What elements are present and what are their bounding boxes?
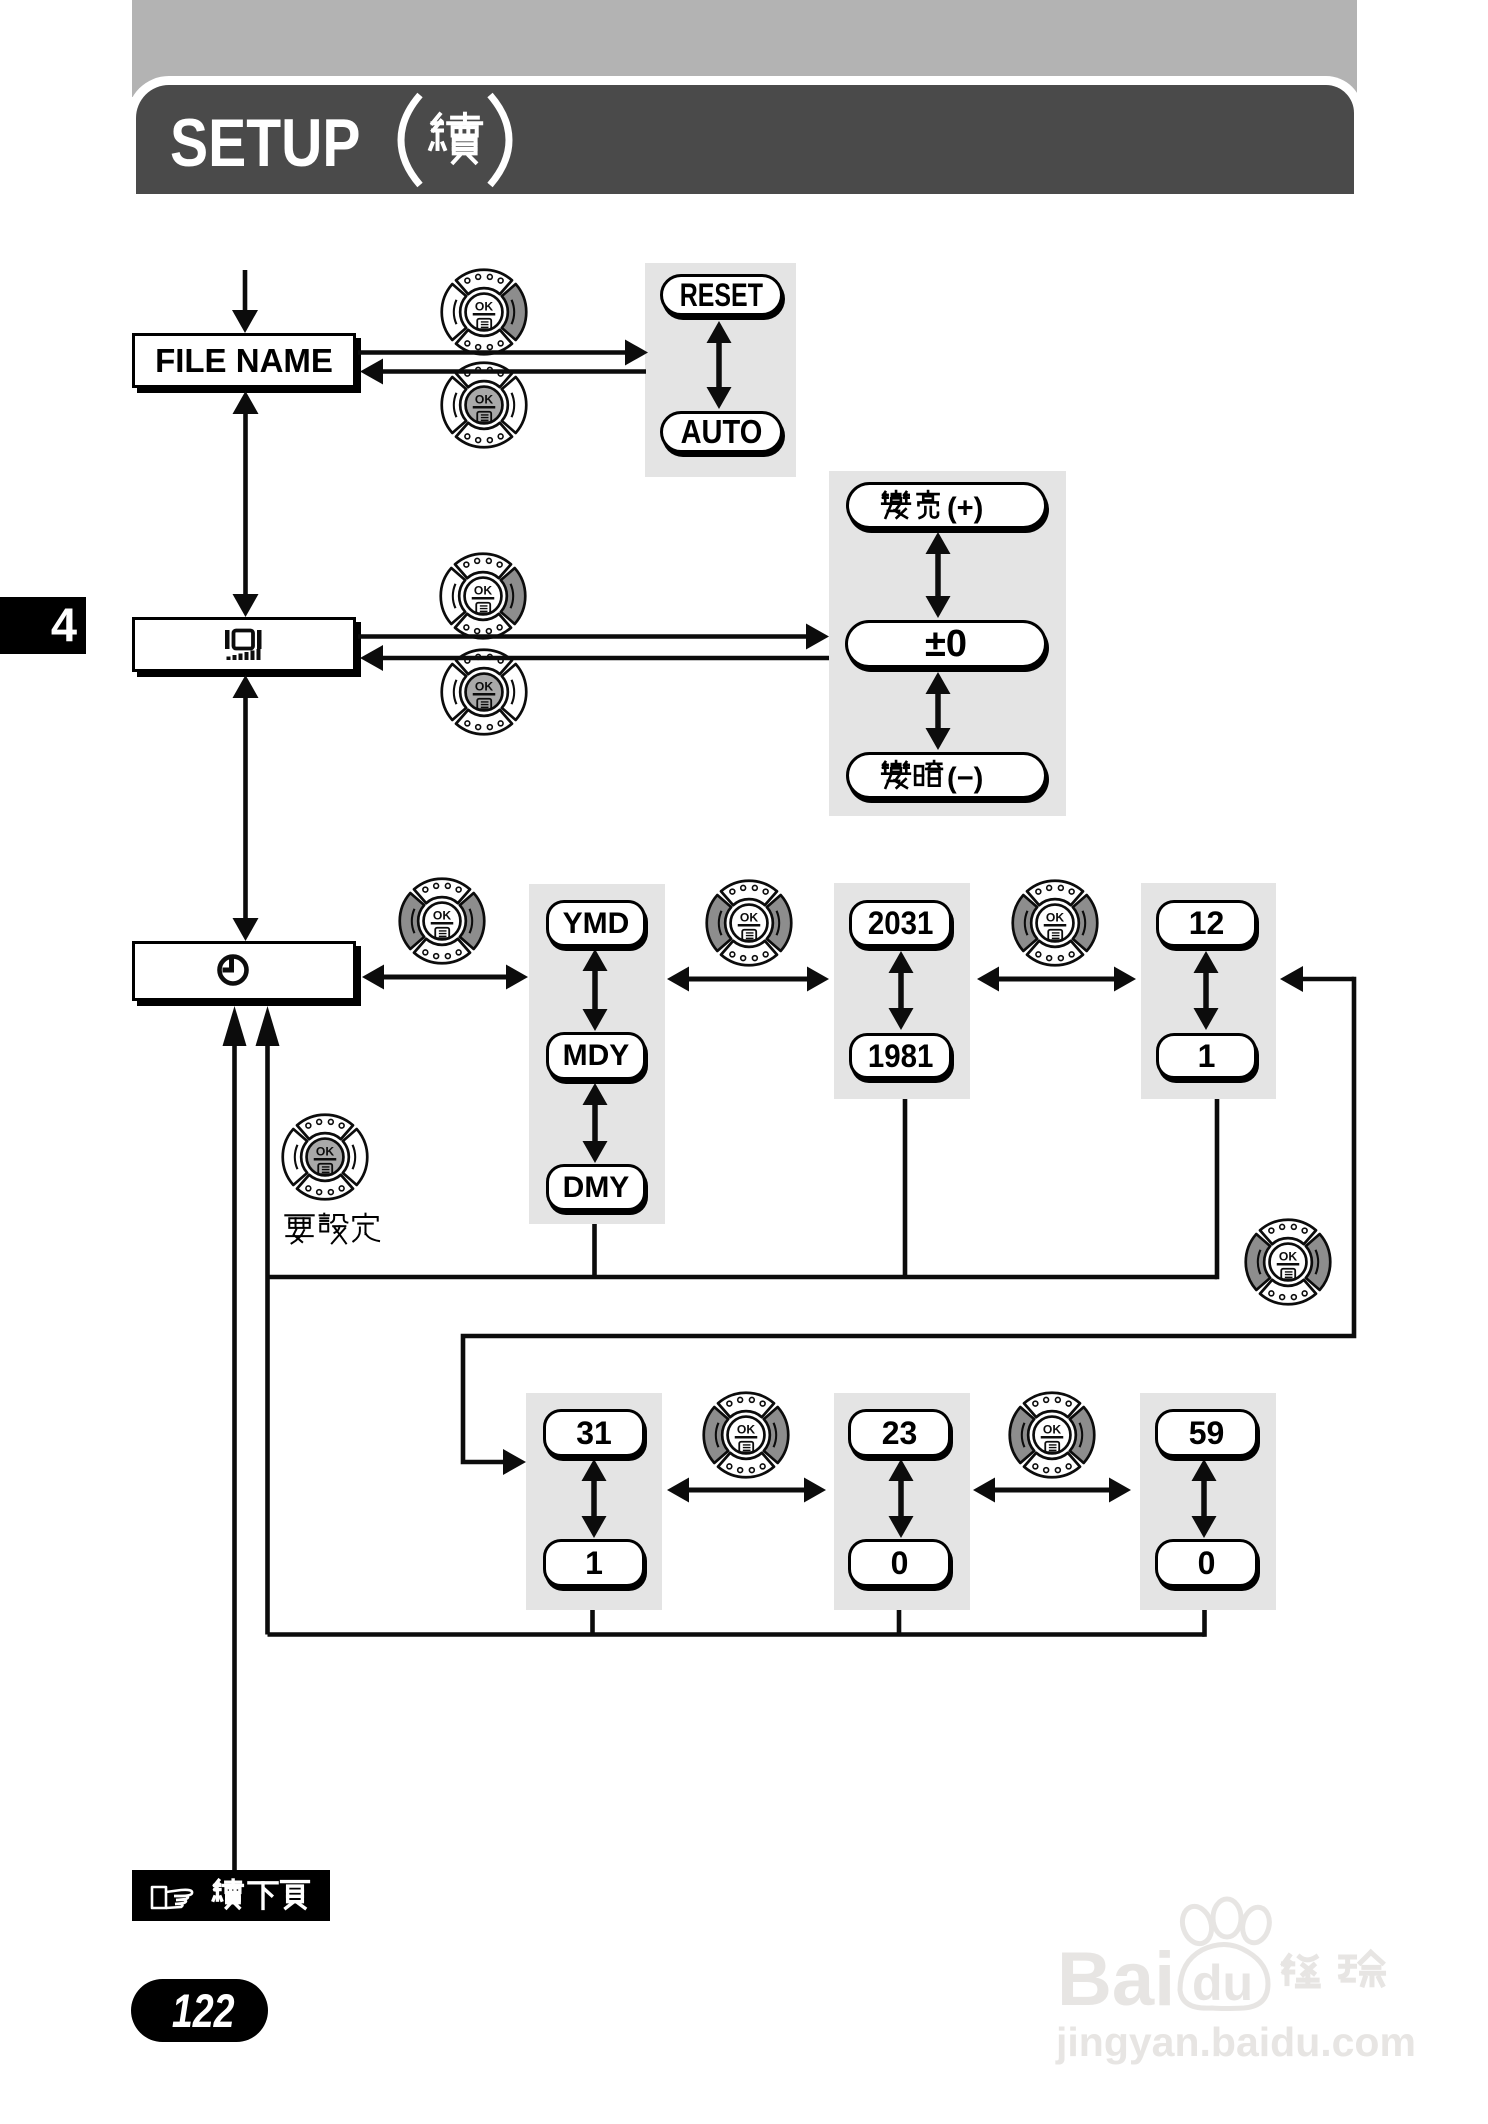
ok-pad P3 (441, 554, 526, 639)
return line from next page into clock box (232, 1046, 237, 1870)
pill day 1 (543, 1539, 645, 1587)
ok-pad P9 (1246, 1220, 1331, 1305)
pill year 1981 (849, 1033, 952, 1079)
double arrow 59/0 (1201, 1479, 1207, 1518)
node box monitor (132, 617, 356, 672)
panel year (834, 883, 970, 1099)
svg-text:Bai: Bai (1057, 1937, 1175, 2022)
svg-text:(+): (+) (947, 493, 983, 525)
link FILE NAME / monitor (233, 391, 259, 414)
pill hour 23 (848, 1409, 951, 1457)
pill month 12 (1156, 900, 1257, 947)
pill YMD (546, 900, 646, 947)
clock icon in clock box (220, 957, 247, 984)
feedback wire right/down/left (463, 977, 1354, 1462)
ok-pad P11 (1010, 1393, 1095, 1478)
pill month 1 (1156, 1033, 1257, 1079)
ok-pad P1 (442, 270, 527, 355)
node box clock (132, 941, 356, 1001)
double arrow brighter/zero (935, 552, 941, 598)
monitor icon in monitor box (225, 630, 262, 660)
ok-pad P6 (707, 881, 792, 966)
watermark baidu logo paw (139, 1899, 1273, 2124)
double arrow day / hour panel (687, 1488, 806, 1493)
wire hour panel down (897, 1610, 902, 1635)
double arrow 31/1 (591, 1479, 597, 1518)
title fullwidth paren right (490, 95, 509, 185)
double arrow 2031/1981 (898, 971, 904, 1010)
wire 1981 panel down (903, 1099, 908, 1277)
arrow brightness panel to monitor (381, 656, 829, 661)
feedback arrow into month panel (1280, 966, 1303, 992)
feedback arrow into day panel (503, 1449, 526, 1475)
wire month panel down (1215, 1099, 1220, 1279)
ok-pad P5 (400, 879, 485, 964)
double arrow zero/darker (935, 692, 941, 730)
arrow monitor to brightness panel (358, 634, 808, 639)
header gray band (132, 0, 1357, 97)
double arrow MDY/DMY (592, 1103, 598, 1143)
return line from collectors into clock box (265, 1046, 270, 1635)
svg-text:(−): (−) (947, 763, 983, 795)
pill RESET (660, 274, 783, 316)
arrow RESET panel to FILE NAME (381, 369, 646, 374)
entry arrow into FILE NAME (243, 270, 248, 312)
double arrow 12/1 (1203, 971, 1209, 1010)
double arrow hour / minute panel (993, 1488, 1111, 1493)
page number 122 (131, 1979, 268, 2042)
continue next page box (132, 1870, 330, 1921)
panel minute (1140, 1393, 1276, 1610)
pointing hand icon (152, 1887, 192, 1908)
label to set (要設定) (285, 1215, 313, 1243)
panel day (526, 1393, 662, 1610)
title fullwidth paren left (401, 95, 420, 185)
panel RESET/AUTO (645, 263, 796, 477)
double arrow RESET/AUTO (716, 341, 722, 389)
double arrow YMD/MDY (592, 969, 598, 1011)
link monitor / clock (233, 675, 259, 698)
pill day 31 (543, 1409, 645, 1457)
node box FILE NAME (132, 333, 356, 388)
chapter tab 4 (0, 597, 86, 654)
panel YMD (529, 884, 665, 1224)
ok-pad P10 (704, 1393, 789, 1478)
title text SETUP (170, 104, 360, 182)
pill minute 0 (1155, 1539, 1258, 1587)
watermark 经验 (1283, 1956, 1318, 1986)
pill AUTO (660, 411, 783, 453)
pill brighter (846, 482, 1047, 529)
wire minute panel down (1202, 1610, 1207, 1637)
double arrow clock / YMD panel (382, 975, 508, 980)
ok-pad P4 (442, 650, 527, 735)
arrow FILE NAME to RESET panel (358, 350, 627, 355)
double arrow year / month panel (997, 977, 1116, 982)
continue text 續下頁 (213, 1880, 242, 1908)
ok-pad P8 (283, 1115, 368, 1200)
ok-pad P7 (1013, 881, 1098, 966)
wire collector time row (268, 1632, 1205, 1637)
title bar dark with white outline (127, 76, 1363, 194)
ok-pad P2 (442, 363, 527, 448)
panel month (1141, 883, 1276, 1099)
svg-text:jingyan.baidu.com: jingyan.baidu.com (1055, 2019, 1416, 2065)
title glyph 續 (430, 114, 481, 163)
wire DMY panel down (592, 1224, 597, 1277)
pill MDY (546, 1032, 646, 1080)
wire day panel down (590, 1610, 595, 1635)
wire collector date row (268, 1275, 1218, 1280)
pill DMY (546, 1164, 646, 1211)
panel hour (834, 1393, 970, 1610)
pill minute 59 (1155, 1409, 1258, 1457)
pill zero (845, 620, 1047, 668)
pill hour 0 (848, 1539, 951, 1587)
double arrow YMD / year panel (687, 977, 809, 982)
double arrow 23/0 (898, 1479, 904, 1518)
panel brightness (829, 471, 1066, 816)
svg-text:du: du (1192, 1955, 1253, 2011)
pill darker (846, 752, 1047, 799)
pill year 2031 (849, 900, 952, 947)
